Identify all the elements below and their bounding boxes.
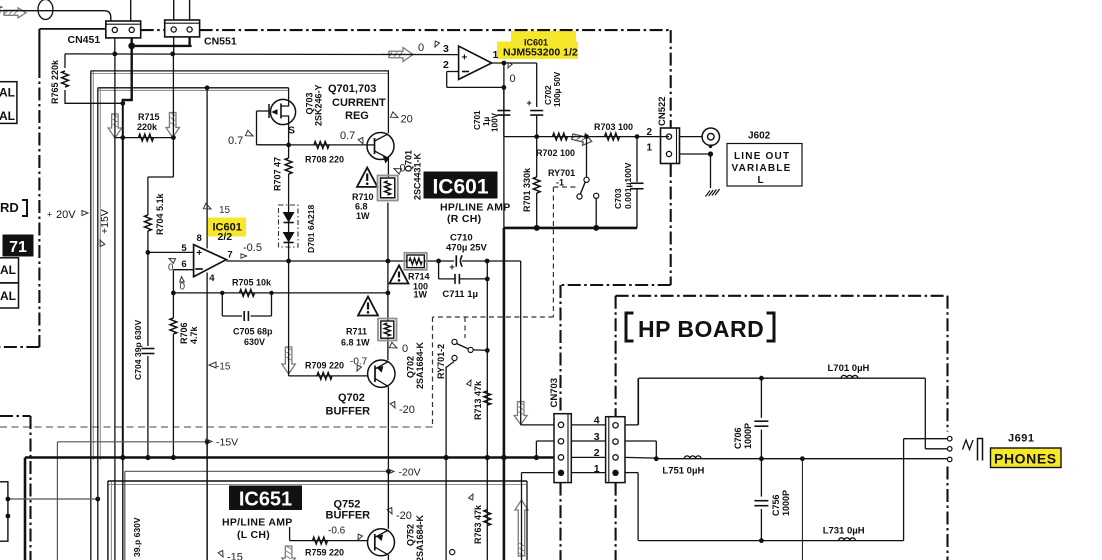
inductor L701 — [841, 375, 858, 378]
rail CN451-1 vertical — [114, 54, 116, 138]
rail thick vertical x122.8 — [122, 103, 124, 457]
wire thick pin2 down — [123, 46, 132, 103]
junction x122.8 y103.3 — [120, 101, 125, 106]
label AL boxes top — [0, 82, 17, 124]
junction pin1 CN451 on signal — [112, 52, 117, 57]
svg-text:Q701,703: Q701,703 — [328, 83, 376, 95]
capacitor C705 loop — [221, 293, 223, 316]
annotation -20 Q752 — [387, 507, 394, 515]
svg-text:1W: 1W — [414, 290, 428, 300]
svg-text:PHONES: PHONES — [994, 451, 1057, 467]
jack J691 plug — [963, 440, 974, 450]
junction output row — [386, 259, 391, 264]
svg-text:CN551: CN551 — [204, 36, 237, 48]
svg-text:20V: 20V — [56, 209, 76, 221]
svg-text:39.p 630V: 39.p 630V — [132, 517, 142, 557]
svg-text:-20V: -20V — [399, 467, 421, 479]
wire pin4 down — [206, 273, 208, 560]
svg-text:-1: -1 — [556, 178, 564, 188]
svg-text:C704 39p 630V: C704 39p 630V — [133, 320, 143, 380]
svg-text:0.001µ100V: 0.001µ100V — [623, 162, 633, 209]
svg-text:(R CH): (R CH) — [447, 213, 481, 225]
svg-text:2SC4431-K: 2SC4431-K — [413, 152, 423, 200]
svg-text:1: 1 — [493, 49, 499, 61]
rail +15V vertical — [97, 88, 99, 560]
junction C710 left — [436, 259, 441, 264]
resistor R765 path — [65, 54, 123, 103]
wire R705 row — [173, 292, 388, 294]
relay RY701-1 contacts — [586, 137, 588, 177]
svg-text:8: 8 — [197, 233, 202, 244]
svg-text:3: 3 — [443, 43, 449, 55]
wire op1 output down — [503, 63, 505, 228]
wire pin1 right — [625, 472, 638, 474]
HP board border — [616, 295, 948, 297]
wire pin4 left — [521, 424, 554, 426]
svg-text:CN522: CN522 — [657, 96, 668, 126]
wire C704 下 — [147, 252, 149, 346]
svg-text:+15V: +15V — [99, 209, 111, 234]
junction fb — [502, 85, 507, 90]
wire pin3 right — [625, 440, 656, 442]
svg-text:(L CH): (L CH) — [237, 529, 270, 541]
label AL boxes mid — [0, 258, 19, 283]
wire main signal to pin3 — [65, 53, 459, 56]
svg-text:HP/LINE AMP: HP/LINE AMP — [222, 517, 293, 529]
wire D701 down — [288, 245, 290, 261]
board border left lower — [0, 415, 31, 417]
resistor R706 — [172, 293, 174, 318]
wire jog to R704 — [148, 176, 174, 178]
connector CN703 right — [606, 417, 625, 483]
bus main — [25, 456, 554, 459]
cable loop symbol — [38, 0, 53, 20]
jack J602 — [702, 128, 719, 145]
ground J602 — [706, 191, 711, 197]
svg-text:0.7: 0.7 — [228, 135, 243, 147]
svg-text:100V: 100V — [491, 112, 500, 132]
section box R-ch inner — [98, 89, 289, 91]
svg-text:R759 220: R759 220 — [305, 548, 344, 558]
annotation 0 emitter — [393, 166, 402, 174]
svg-text:BUFFER: BUFFER — [326, 406, 371, 418]
wire Q702 base line — [288, 261, 290, 376]
resistor R711 fusible — [378, 319, 397, 341]
svg-text:R702 100: R702 100 — [536, 148, 575, 158]
svg-text:-20: -20 — [399, 404, 415, 416]
annotation -20 Q702 — [390, 401, 397, 409]
svg-text:R763 47k: R763 47k — [473, 504, 483, 544]
wire top-left input — [0, 11, 111, 21]
svg-text:R714: R714 — [408, 272, 430, 282]
wire pin2 feedback — [447, 71, 459, 73]
svg-text:5: 5 — [181, 243, 187, 254]
board border corner to CN703 — [561, 284, 671, 286]
svg-text:1000P: 1000P — [781, 490, 791, 516]
resistor R704 — [145, 215, 152, 231]
svg-text:R715: R715 — [138, 112, 160, 122]
annotation -15V — [206, 439, 212, 444]
svg-text:R701 330k: R701 330k — [522, 167, 532, 212]
wire CN522 pin1 to jack — [680, 153, 711, 155]
svg-text:R711: R711 — [346, 327, 367, 337]
label LINE OUT box — [727, 144, 802, 187]
wire jack ground — [710, 154, 712, 188]
junction fb row — [386, 291, 391, 296]
svg-text:L731 0µH: L731 0µH — [823, 526, 865, 537]
svg-text:Q702: Q702 — [406, 356, 416, 378]
wire CN451 pin1 down — [114, 38, 116, 54]
svg-text:C702: C702 — [544, 85, 553, 105]
relay RY751-2 contact — [450, 550, 455, 555]
svg-text:RY701: RY701 — [548, 168, 575, 178]
transistor Q752 — [368, 529, 395, 556]
svg-text:C703: C703 — [613, 188, 623, 209]
board border left upper — [38, 29, 40, 65]
resistor R702 — [553, 133, 568, 140]
resistor R715 — [139, 134, 154, 141]
wire thick CN451-CN551 pin2 link — [130, 38, 132, 46]
svg-text:+: + — [449, 262, 455, 273]
svg-text:VARIABLE: VARIABLE — [732, 163, 792, 174]
svg-text:0: 0 — [180, 282, 186, 293]
resistor R763 — [484, 510, 491, 526]
svg-text:CN703: CN703 — [549, 378, 560, 408]
junction D701 output — [286, 259, 291, 264]
connector CN522 — [661, 128, 680, 164]
svg-text:J602: J602 — [748, 131, 771, 142]
board border top — [141, 29, 165, 31]
annotation -15 rail — [209, 362, 216, 368]
junction CN451 pin2 — [128, 43, 135, 50]
op-amp IC601 1/2 — [459, 46, 492, 79]
flow arrow R702-R703 — [571, 131, 593, 147]
dashed separator line — [0, 426, 433, 428]
svg-text:1: 1 — [647, 143, 653, 154]
svg-text:6: 6 — [181, 259, 186, 270]
svg-text:20: 20 — [401, 114, 413, 126]
svg-text:-15: -15 — [216, 362, 231, 373]
capacitor C706 — [760, 378, 762, 418]
resistor R703 — [605, 133, 620, 140]
junction thick RY — [593, 225, 599, 231]
highlight IC601 2/2 label — [208, 218, 246, 237]
svg-text:L701 0µH: L701 0µH — [828, 363, 870, 374]
transistor Q702 — [368, 360, 395, 387]
svg-text:2/2: 2/2 — [218, 231, 233, 243]
wire pin3 left — [536, 440, 554, 442]
flow arrow L-ch base down (partial) — [282, 546, 296, 560]
svg-text:-0.6: -0.6 — [328, 526, 346, 537]
flow arrow top-left — [4, 8, 26, 18]
wire CN551 pin1 down — [173, 37, 175, 54]
resistor R714 fusible — [404, 253, 426, 270]
svg-text:R707 47: R707 47 — [273, 157, 283, 191]
diode D701 pair — [288, 203, 290, 245]
svg-text:100µ 50V: 100µ 50V — [553, 71, 562, 107]
svg-text:4: 4 — [209, 273, 215, 284]
wire Q752 collector — [387, 471, 389, 528]
inductor L751 — [684, 456, 701, 459]
svg-text:2: 2 — [443, 59, 449, 71]
annotation 20 — [390, 112, 399, 120]
svg-text:NJM553200 1/2: NJM553200 1/2 — [503, 47, 578, 59]
wire y479 rail — [108, 480, 527, 482]
wire A top — [91, 70, 389, 72]
capacitor C703 — [636, 137, 638, 182]
svg-text:C706: C706 — [733, 427, 743, 449]
junction wireB pin8 — [205, 85, 210, 90]
svg-text:C756: C756 — [771, 494, 781, 516]
highlight PHONES label — [991, 448, 1062, 468]
wire pin4 right up — [625, 424, 638, 426]
svg-text:CN451: CN451 — [68, 34, 101, 46]
svg-text:0.7: 0.7 — [340, 130, 355, 142]
svg-text:L751 0µH: L751 0µH — [662, 466, 704, 477]
wire out to C702 — [536, 63, 538, 107]
svg-text:R703 100: R703 100 — [594, 122, 633, 132]
flow arrow to op-amp pin3 — [389, 48, 413, 62]
annotation -15 partial — [218, 550, 225, 558]
svg-text:+: + — [462, 53, 468, 64]
svg-text:0: 0 — [510, 73, 516, 85]
label HP BOARD — [626, 313, 634, 341]
flow arrow phones line up — [515, 500, 528, 556]
junction pin5 — [146, 250, 151, 255]
transistor Q703 FET — [270, 99, 295, 124]
svg-text:RD: RD — [0, 200, 19, 215]
wire pin1 out — [492, 62, 537, 64]
connector CN451 — [106, 21, 141, 38]
diode D701 dashdot box — [279, 205, 299, 247]
svg-text:2SA1684-K: 2SA1684-K — [415, 514, 425, 560]
svg-text:BUFFER: BUFFER — [326, 510, 371, 522]
svg-text:C701: C701 — [473, 110, 482, 130]
svg-text:R708 220: R708 220 — [305, 155, 344, 165]
wire Q703 drain — [288, 88, 290, 98]
svg-text:15: 15 — [219, 205, 231, 216]
wire thick output — [503, 228, 506, 560]
junction pin1 CN551 on signal — [170, 52, 175, 57]
junction C710 right — [485, 259, 490, 264]
wire pin7 out — [226, 260, 407, 262]
warning triangle R711 — [358, 297, 378, 316]
svg-text:AL: AL — [0, 86, 15, 100]
svg-text:+: + — [196, 248, 202, 259]
label IC601 block — [424, 172, 497, 198]
svg-text:470µ 25V: 470µ 25V — [446, 243, 488, 254]
svg-text:-15V: -15V — [216, 437, 238, 449]
junction mid row x802 — [800, 456, 805, 461]
annotation -20V — [388, 469, 394, 474]
capacitor C704 — [141, 348, 154, 350]
svg-text:J691: J691 — [1008, 433, 1034, 445]
wire CN451 pin2 from top — [130, 0, 132, 21]
connector left bottom box — [0, 482, 8, 541]
wire pin5 — [148, 251, 194, 253]
board border right of CN522 — [670, 30, 672, 128]
wire R710 down — [387, 203, 389, 322]
jack J691 contacts — [947, 436, 952, 441]
junction C711 right — [485, 277, 490, 282]
svg-text:D701 6A218: D701 6A218 — [306, 205, 316, 253]
resistor R707 — [288, 145, 290, 158]
warning triangle R710 — [357, 168, 377, 187]
wire Q752 base — [289, 527, 291, 541]
svg-text:AL: AL — [0, 289, 16, 303]
svg-text:R765 220k: R765 220k — [50, 59, 60, 104]
svg-text:CURRENT: CURRENT — [332, 97, 386, 109]
junction R703 right — [635, 134, 640, 139]
svg-text:71: 71 — [9, 239, 27, 256]
bus left drop — [24, 458, 27, 560]
svg-text:T: T — [0, 6, 3, 17]
capacitor C701 — [503, 87, 505, 110]
wire Q701 emitter — [387, 158, 389, 177]
flow arrow CN551 line down — [166, 113, 180, 138]
rail +20V vertical — [90, 71, 92, 560]
wire upper loop to jack — [924, 378, 926, 449]
svg-text:-20: -20 — [396, 510, 412, 522]
connector CN551 — [165, 20, 200, 37]
wire Q703 gate loop — [257, 110, 270, 112]
svg-text:630V: 630V — [244, 337, 265, 347]
svg-text:-15: -15 — [227, 552, 243, 560]
wire pin8 — [206, 88, 208, 249]
svg-text:C705 68p: C705 68p — [233, 327, 273, 337]
wire HP lower loop — [639, 540, 904, 542]
warning triangle R714 — [390, 265, 409, 283]
svg-text:LINE OUT: LINE OUT — [734, 151, 790, 162]
inductor L731 — [839, 538, 856, 541]
label 71 block — [3, 235, 33, 256]
svg-text:220k: 220k — [137, 122, 158, 132]
resistor R715 wire — [115, 137, 173, 139]
junction R715 right — [171, 135, 176, 140]
flow arrow Q702 base line down — [282, 347, 296, 374]
svg-text:6.8: 6.8 — [355, 202, 368, 212]
svg-text:AL: AL — [0, 263, 16, 277]
transistor Q701 — [367, 133, 394, 160]
svg-text:R704 5.1k: R704 5.1k — [155, 192, 165, 235]
wire R708 row — [257, 144, 368, 146]
resistor R759 — [313, 537, 328, 544]
svg-text:2SK246-Y: 2SK246-Y — [314, 84, 324, 126]
svg-text:HP BOARD: HP BOARD — [638, 316, 764, 342]
wire R713 line — [486, 279, 488, 560]
wire CN551 pins from top — [173, 0, 175, 20]
wires CN703 rows — [571, 424, 605, 426]
resistor R709 — [317, 373, 332, 380]
svg-text:R706: R706 — [179, 322, 189, 344]
svg-text:R710: R710 — [352, 192, 374, 202]
svg-text:2: 2 — [647, 127, 653, 138]
svg-text:7: 7 — [227, 250, 232, 261]
svg-text:1000P: 1000P — [743, 423, 753, 449]
annotation 0 Q702 — [389, 342, 398, 350]
wire CN451 left — [39, 28, 105, 30]
annotation 0 pin5 — [168, 256, 176, 263]
capacitor C711 loop — [438, 261, 440, 279]
junction R706 top — [171, 291, 176, 296]
svg-text:R705 10k: R705 10k — [232, 278, 272, 288]
svg-text:R709 220: R709 220 — [305, 361, 344, 371]
svg-text:RY701-2: RY701-2 — [436, 344, 446, 379]
wire B top — [98, 87, 289, 89]
resistor R708 — [314, 142, 329, 149]
svg-text:Q702: Q702 — [338, 392, 365, 404]
annotation 0 pin6 — [179, 276, 184, 282]
svg-text:2SA1684-K: 2SA1684-K — [415, 341, 425, 389]
junction thick C703 — [534, 225, 540, 231]
junction C756 bottom — [759, 538, 764, 543]
svg-text:IC601: IC601 — [432, 176, 488, 199]
verticals below bus — [445, 367, 447, 560]
annotation 15 — [203, 203, 212, 211]
svg-text:0: 0 — [402, 343, 408, 355]
wire thick R-ch row — [504, 227, 637, 230]
capacitor C756 — [760, 459, 762, 497]
relay RY701 mech dashed link — [552, 187, 554, 317]
section box R-ch outer — [91, 73, 389, 75]
svg-text:4.7k: 4.7k — [189, 325, 199, 344]
wire HP upper loop — [639, 377, 926, 379]
wire x802 down — [801, 459, 803, 560]
junction R715 left — [120, 135, 125, 140]
wire pin1 left — [522, 472, 555, 474]
wire Q701 collector — [387, 71, 389, 133]
junction C705 right — [269, 291, 273, 295]
svg-text:IC651: IC651 — [239, 489, 292, 511]
svg-text:1W: 1W — [356, 211, 370, 221]
rail -15V — [57, 441, 207, 443]
highlight IC601 1/2 label — [511, 31, 576, 42]
svg-text:0: 0 — [400, 163, 406, 175]
relay RY701-2 contacts — [452, 339, 457, 344]
annotation 0 out — [506, 63, 512, 69]
wire CN522 pin2 to jack — [680, 136, 703, 138]
resistor R710 fusible — [378, 176, 398, 201]
wire output to corner — [520, 261, 522, 425]
svg-text:+: + — [47, 210, 52, 220]
connector CN703 left — [554, 414, 571, 483]
svg-text:L: L — [758, 175, 764, 186]
svg-text:0: 0 — [418, 42, 424, 54]
wire pin2 row main — [625, 456, 656, 459]
resistor R713 — [484, 391, 491, 405]
flow arrow CN451 line down — [108, 114, 122, 138]
svg-text:+: + — [527, 98, 532, 108]
flow arrow to CN703 pin4 down — [514, 402, 527, 425]
junction RY701-2 — [485, 348, 490, 353]
wire out row — [504, 136, 669, 138]
rail CN551-1 vertical — [172, 54, 174, 177]
wire pin6 — [173, 269, 194, 271]
svg-text:R713 47k: R713 47k — [473, 380, 483, 420]
svg-text:AL: AL — [0, 109, 15, 123]
junction out — [502, 61, 507, 66]
svg-text:HP/LINE AMP: HP/LINE AMP — [440, 202, 511, 214]
section box IC651 — [108, 484, 526, 486]
relay RY701-2 dashed enclosure — [432, 317, 434, 427]
svg-text:C711 1µ: C711 1µ — [442, 289, 478, 300]
rail -20V — [125, 470, 389, 472]
op-amp IC601 2/2 — [194, 245, 227, 277]
junction C706 top — [759, 376, 764, 381]
wire left connector — [8, 498, 98, 500]
resistor R705 — [240, 290, 255, 297]
resistor R701 — [536, 137, 538, 177]
